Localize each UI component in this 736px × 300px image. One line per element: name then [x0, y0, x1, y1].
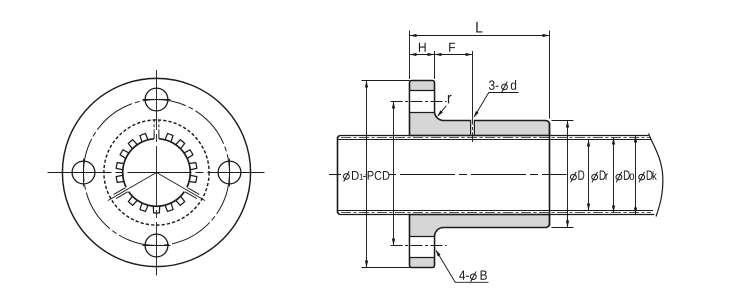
shaft left end face — [338, 136, 340, 215]
label Do — [616, 172, 622, 182]
shaft groove line top — [338, 139, 652, 141]
bolt hole bottom center line — [391, 245, 447, 247]
bolt hole top center tick — [143, 99, 171, 101]
shaft groove line bottom — [338, 210, 654, 212]
label D backing — [570, 168, 588, 183]
shaft center line — [329, 174, 567, 176]
shaft outer line bottom — [340, 214, 655, 216]
radial center line lower-right — [157, 173, 206, 201]
bushing flange & body upper section (gray) — [410, 81, 550, 136]
label Do backing — [615, 168, 635, 183]
dimension Do line — [613, 138, 615, 213]
shaft outer line top — [340, 135, 649, 137]
leader 3-od with shelf — [474, 93, 518, 117]
hidden body outline circle (dashed) — [104, 120, 209, 225]
ball pitch line bottom (dash-dot) — [341, 212, 651, 214]
front view vertical center line — [156, 70, 158, 276]
label F — [449, 43, 455, 52]
dimension PCD line — [393, 102, 395, 246]
bolt circle PCD (dash-dot) — [84, 100, 230, 246]
dimension Do arrows — [612, 138, 615, 145]
leader 4-oB with shelf — [436, 251, 488, 283]
bushing flange & body lower section (gray) — [410, 215, 550, 268]
bolt hole top center line — [391, 101, 447, 103]
label r — [448, 95, 452, 104]
bolt hole right center tick — [229, 159, 231, 187]
label 3-od — [489, 80, 495, 90]
dimension D1 extension lines — [362, 80, 410, 82]
flange bolt hole top (section) — [410, 91, 435, 113]
dimension D arrows — [566, 121, 569, 128]
dimension D line — [567, 121, 569, 228]
bolt hole top — [145, 88, 168, 111]
dimension L line — [410, 35, 550, 37]
label 4-oB — [459, 271, 465, 280]
grease hole center line — [472, 115, 474, 145]
retainer slot lower-right (walls) — [185, 188, 199, 199]
dimension Dr arrows — [587, 140, 590, 147]
shaft break line — [649, 134, 663, 217]
bolt hole bottom center tick — [143, 245, 171, 247]
spline root circle (with slot gaps) — [123, 139, 191, 207]
dimension D extension lines — [552, 120, 574, 122]
label Dr backing — [590, 168, 611, 183]
label Dr — [592, 172, 598, 182]
retainer slot top hidden extension (dashed) — [154, 120, 159, 132]
spline teeth — [116, 134, 197, 213]
label H — [419, 43, 426, 52]
dimension Dr line — [588, 140, 590, 211]
label Dk — [639, 172, 645, 182]
retainer slot at top (walls) — [154, 132, 159, 139]
dimension L arrows — [410, 34, 417, 37]
label D1 with white backing — [341, 169, 366, 182]
dimension H arrows — [410, 53, 417, 56]
grease hole 3-od (gap in body) — [471, 119, 475, 135]
bushing right end face line — [549, 123, 551, 226]
retainer slot lower-left (walls) — [114, 188, 128, 199]
bolt hole left center tick — [83, 159, 85, 187]
label PCD — [367, 169, 389, 182]
dimension H line — [410, 54, 435, 56]
front view horizontal center line — [48, 172, 265, 174]
dimension PCD arrows — [392, 102, 395, 109]
radial center line lower-left — [108, 173, 157, 201]
bolt hole right — [218, 161, 241, 184]
leader r — [438, 106, 446, 116]
bolt hole left — [72, 161, 95, 184]
flange bolt hole bottom (section) — [410, 237, 435, 258]
dimension Dk arrows — [634, 136, 637, 143]
dimension Dk line — [635, 136, 637, 215]
dimension F arrows — [435, 53, 442, 56]
bolt hole bottom — [145, 234, 168, 257]
dimension F line — [435, 54, 473, 56]
dimension L extension lines — [409, 31, 411, 80]
dimension H/F extension lines — [434, 51, 436, 79]
flange outer circle — [62, 78, 250, 266]
dimension D1 arrows — [365, 81, 368, 88]
label Dk backing — [637, 168, 657, 183]
label D — [570, 172, 576, 182]
dimension D1 line — [366, 81, 368, 268]
ball pitch line top (dash-dot) — [341, 137, 650, 139]
label L — [476, 22, 482, 33]
